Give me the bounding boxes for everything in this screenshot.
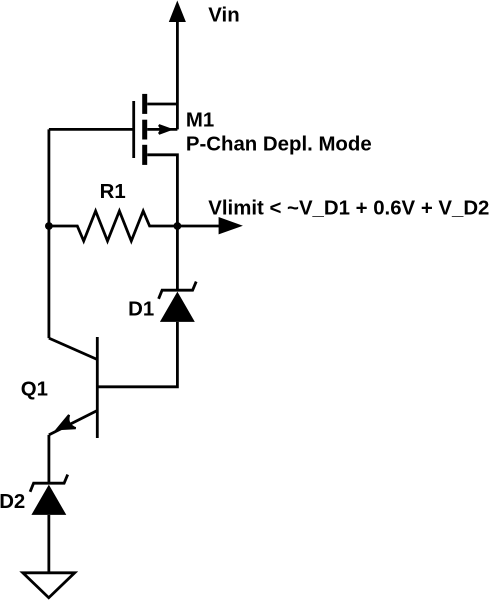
svg-text:Vin: Vin [208,5,239,27]
power flag Vin [169,1,186,130]
svg-text:Vlimit < ~V_D1 + 0.6V + V_D2: Vlimit < ~V_D1 + 0.6V + V_D2 [208,197,489,219]
svg-text:D1: D1 [128,298,154,320]
wire left rail down to Q1 collector [48,129,51,338]
node dot right of R1 [174,222,182,230]
mosfet M1 [134,94,178,226]
wire D2 anode down to ground [47,515,50,573]
svg-text:R1: R1 [100,181,126,203]
ground [23,573,75,598]
wire node to D1 [176,226,179,290]
transistor Q1 [49,337,97,438]
wire D1 anode down and over to Q1 base [97,322,177,387]
svg-text:M1: M1 [186,109,214,131]
svg-text:Q1: Q1 [21,378,48,400]
output flag arrow [177,217,243,234]
zener diode D1 [159,282,197,322]
wire gate of M1 to left rail [49,128,134,131]
node dot left of R1 [45,222,53,230]
zener diode D2 [30,475,68,515]
svg-text:P-Chan Depl. Mode: P-Chan Depl. Mode [186,134,372,156]
wire Q1 emitter down to D2 [48,435,51,483]
resistor R1 [49,211,178,241]
svg-text:D2: D2 [0,491,25,513]
